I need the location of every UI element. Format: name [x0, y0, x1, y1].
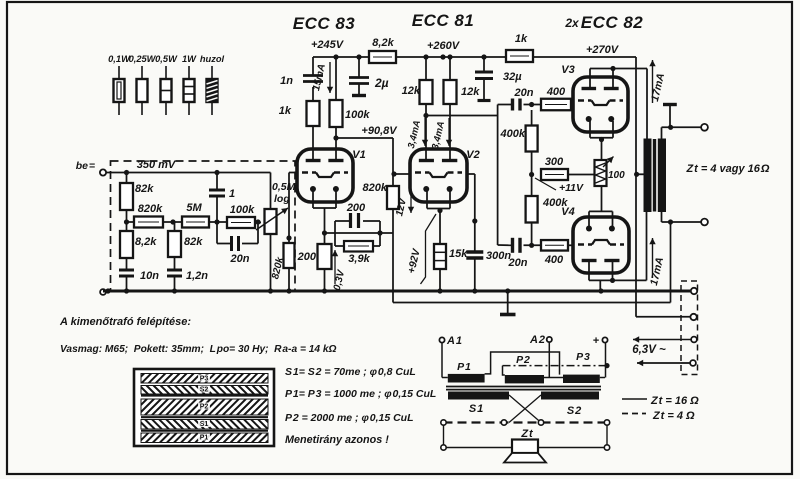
svg-text:Menetirány azonos !: Menetirány azonos ! — [285, 434, 389, 446]
svg-text:+245V: +245V — [311, 39, 345, 51]
svg-text:82k: 82k — [135, 183, 154, 195]
svg-text:Z t = 4 vagy 16 Ω: Z t = 4 vagy 16 Ω — [686, 163, 770, 175]
svg-text:100k: 100k — [345, 109, 370, 121]
svg-text:200: 200 — [346, 202, 366, 214]
svg-text:200: 200 — [297, 251, 317, 263]
svg-text:P2: P2 — [200, 404, 209, 411]
svg-text:S 2: S 2 — [567, 405, 581, 417]
svg-text:A kimenőtrafó felépítése:: A kimenőtrafó felépítése: — [59, 316, 191, 328]
svg-text:20n: 20n — [230, 253, 250, 265]
svg-text:1k: 1k — [279, 105, 292, 117]
svg-text:P 1= P 3 = 1000 me ; φ 0,15 Cu: P 1= P 3 = 1000 me ; φ 0,15 CuL — [285, 388, 436, 400]
svg-text:8,2k: 8,2k — [372, 37, 394, 49]
svg-text:5M: 5M — [186, 202, 202, 214]
svg-text:400k: 400k — [500, 128, 526, 140]
svg-text:A 2: A 2 — [529, 334, 545, 346]
svg-text:+270V: +270V — [586, 44, 620, 56]
svg-text:Z t = 4 Ω: Z t = 4 Ω — [652, 410, 695, 422]
svg-text:S1: S1 — [200, 421, 209, 428]
svg-text:log: log — [274, 193, 290, 205]
svg-text:S2: S2 — [200, 387, 209, 394]
svg-text:1n: 1n — [280, 75, 293, 87]
svg-text:82k: 82k — [184, 236, 203, 248]
svg-text:6,3V ~: 6,3V ~ — [632, 344, 666, 356]
svg-text:400: 400 — [544, 254, 564, 266]
svg-text:20n: 20n — [514, 87, 534, 99]
svg-text:820k: 820k — [138, 203, 163, 215]
svg-text:A 1: A 1 — [446, 335, 462, 347]
svg-text:+260V: +260V — [427, 40, 461, 52]
svg-text:12k: 12k — [461, 86, 480, 98]
svg-text:P 1: P 1 — [457, 361, 471, 373]
svg-text:1: 1 — [229, 188, 235, 200]
svg-text:0,25W: 0,25W — [129, 54, 157, 64]
svg-text:400: 400 — [546, 86, 566, 98]
svg-text:100k: 100k — [230, 204, 255, 216]
svg-text:Z t = 16 Ω: Z t = 16 Ω — [650, 395, 699, 407]
svg-text:2µ: 2µ — [374, 76, 389, 90]
svg-text:0,5M: 0,5M — [272, 181, 296, 193]
svg-text:350 mV: 350 mV — [137, 159, 177, 171]
svg-text:2x: 2x — [564, 16, 580, 30]
svg-text:20n: 20n — [508, 257, 528, 269]
svg-text:1k: 1k — [515, 33, 528, 45]
svg-text:S 1: S 1 — [469, 403, 483, 415]
svg-text:+: + — [593, 335, 600, 347]
svg-text:100: 100 — [608, 170, 625, 181]
svg-text:ECC 82: ECC 82 — [581, 13, 644, 32]
svg-text:ECC 83: ECC 83 — [293, 14, 356, 33]
svg-text:Z t: Z t — [520, 428, 534, 440]
svg-text:P 2 = 2000 me ; φ 0,15 CuL: P 2 = 2000 me ; φ 0,15 CuL — [285, 412, 414, 424]
svg-text:ECC 81: ECC 81 — [412, 11, 475, 30]
svg-text:P 2: P 2 — [516, 354, 530, 366]
svg-text:Vasmag: M65; Pokett: 35mm; L: Vasmag: M65; Pokett: 35mm; L po= 30 Hy; … — [60, 344, 337, 355]
svg-text:P 3: P 3 — [576, 351, 590, 363]
svg-text:P3: P3 — [200, 376, 209, 383]
svg-text:+11V: +11V — [559, 182, 584, 194]
svg-text:+90,8V: +90,8V — [361, 125, 398, 137]
svg-text:be =: be = — [76, 160, 95, 172]
svg-text:V2: V2 — [466, 149, 479, 161]
svg-text:0,5W: 0,5W — [155, 54, 178, 64]
svg-text:V3: V3 — [561, 64, 574, 76]
svg-text:12k: 12k — [402, 85, 421, 97]
svg-text:1,2n: 1,2n — [186, 270, 208, 282]
svg-text:32µ: 32µ — [503, 71, 522, 83]
svg-text:300: 300 — [545, 156, 564, 168]
svg-text:P1: P1 — [200, 435, 209, 442]
svg-text:15k: 15k — [449, 248, 468, 260]
svg-text:8,2k: 8,2k — [135, 236, 157, 248]
svg-text:huzol: huzol — [200, 54, 225, 64]
svg-text:3,9k: 3,9k — [348, 253, 370, 265]
svg-text:10n: 10n — [140, 270, 159, 282]
svg-text:1W: 1W — [182, 54, 197, 64]
svg-text:S 1= S 2 = 70me ; φ 0,8 CuL: S 1= S 2 = 70me ; φ 0,8 CuL — [285, 366, 416, 378]
svg-text:V4: V4 — [561, 206, 574, 218]
svg-text:V1: V1 — [352, 149, 365, 161]
svg-text:820k: 820k — [363, 182, 388, 194]
